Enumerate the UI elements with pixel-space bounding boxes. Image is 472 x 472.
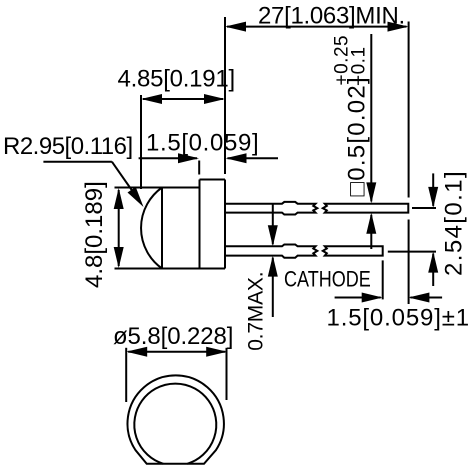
dim line 2.54 upper [432, 173, 434, 206]
svg-text:1.5[0.059]±1: 1.5[0.059]±1 [327, 305, 470, 332]
extension line cathode lead end [388, 251, 436, 253]
LED flange top edge [200, 179, 226, 181]
extension line lead end x=408.6 [408, 22, 410, 198]
extension line flange left x=199.2 [198, 161, 200, 175]
svg-text:4.8[0.189]: 4.8[0.189] [81, 181, 108, 288]
anode lead segment 2 [323, 204, 409, 213]
dim line 0.5 lower [370, 215, 372, 249]
LED flange left edge [199, 180, 201, 269]
bottom view inner body circle [134, 384, 216, 464]
dim line 0.7 lower / cathode arrow [272, 258, 274, 317]
dim line 1.5 right [228, 157, 279, 159]
dim line 4.8 [118, 190, 120, 266]
dim line 1.5 left [139, 157, 197, 159]
extension line body bottom [115, 268, 226, 270]
extension line body top [115, 187, 200, 189]
dim line 1.5+-1 left [335, 297, 381, 299]
LED flange right edge [224, 180, 226, 269]
svg-text:27[1.063]MIN.: 27[1.063]MIN. [258, 3, 405, 30]
dim line 1.5+-1 right [410, 297, 442, 299]
svg-text:−0.1: −0.1 [348, 46, 369, 86]
svg-text:R2.95[0.116]: R2.95[0.116] [3, 133, 133, 160]
svg-text:4.85[0.191]: 4.85[0.191] [118, 66, 235, 93]
cathode lead segment 2 [323, 246, 383, 255]
extension line cathode end vertical [382, 260, 384, 299]
svg-text:□0.5[0.02]: □0.5[0.02] [343, 76, 370, 196]
anode lead segment 1 with crimp [225, 202, 317, 215]
leader R2.95 [43, 161, 112, 163]
cathode lead segment 1 with crimp [225, 245, 317, 258]
dim line 0.7 upper [272, 204, 274, 245]
svg-text:1.5[0.059]: 1.5[0.059] [146, 130, 259, 157]
extension line circle right [226, 348, 228, 400]
extension line dome tip x=141 [140, 95, 142, 189]
dim line 4.85 [143, 98, 223, 100]
dim line 5.8 [128, 351, 225, 353]
extension line flange face x=225 [224, 17, 226, 174]
extension line circle left [125, 348, 127, 402]
svg-text:0.7MAX.: 0.7MAX. [245, 272, 268, 351]
bottom view outer flange outline [127, 375, 223, 463]
svg-text:CATHODE: CATHODE [284, 268, 371, 292]
LED dome arc R2.95 [141, 188, 162, 269]
LED dome-body junction [161, 188, 163, 269]
svg-text:ø5.8[0.228]: ø5.8[0.228] [113, 323, 233, 350]
dim line 2.54 lower [432, 254, 434, 286]
extension line anode lead end [412, 207, 436, 209]
dim line 27 MIN [227, 26, 407, 28]
svg-text:2.54[0.1]: 2.54[0.1] [441, 170, 468, 276]
dim line 0.5 upper [370, 34, 372, 201]
